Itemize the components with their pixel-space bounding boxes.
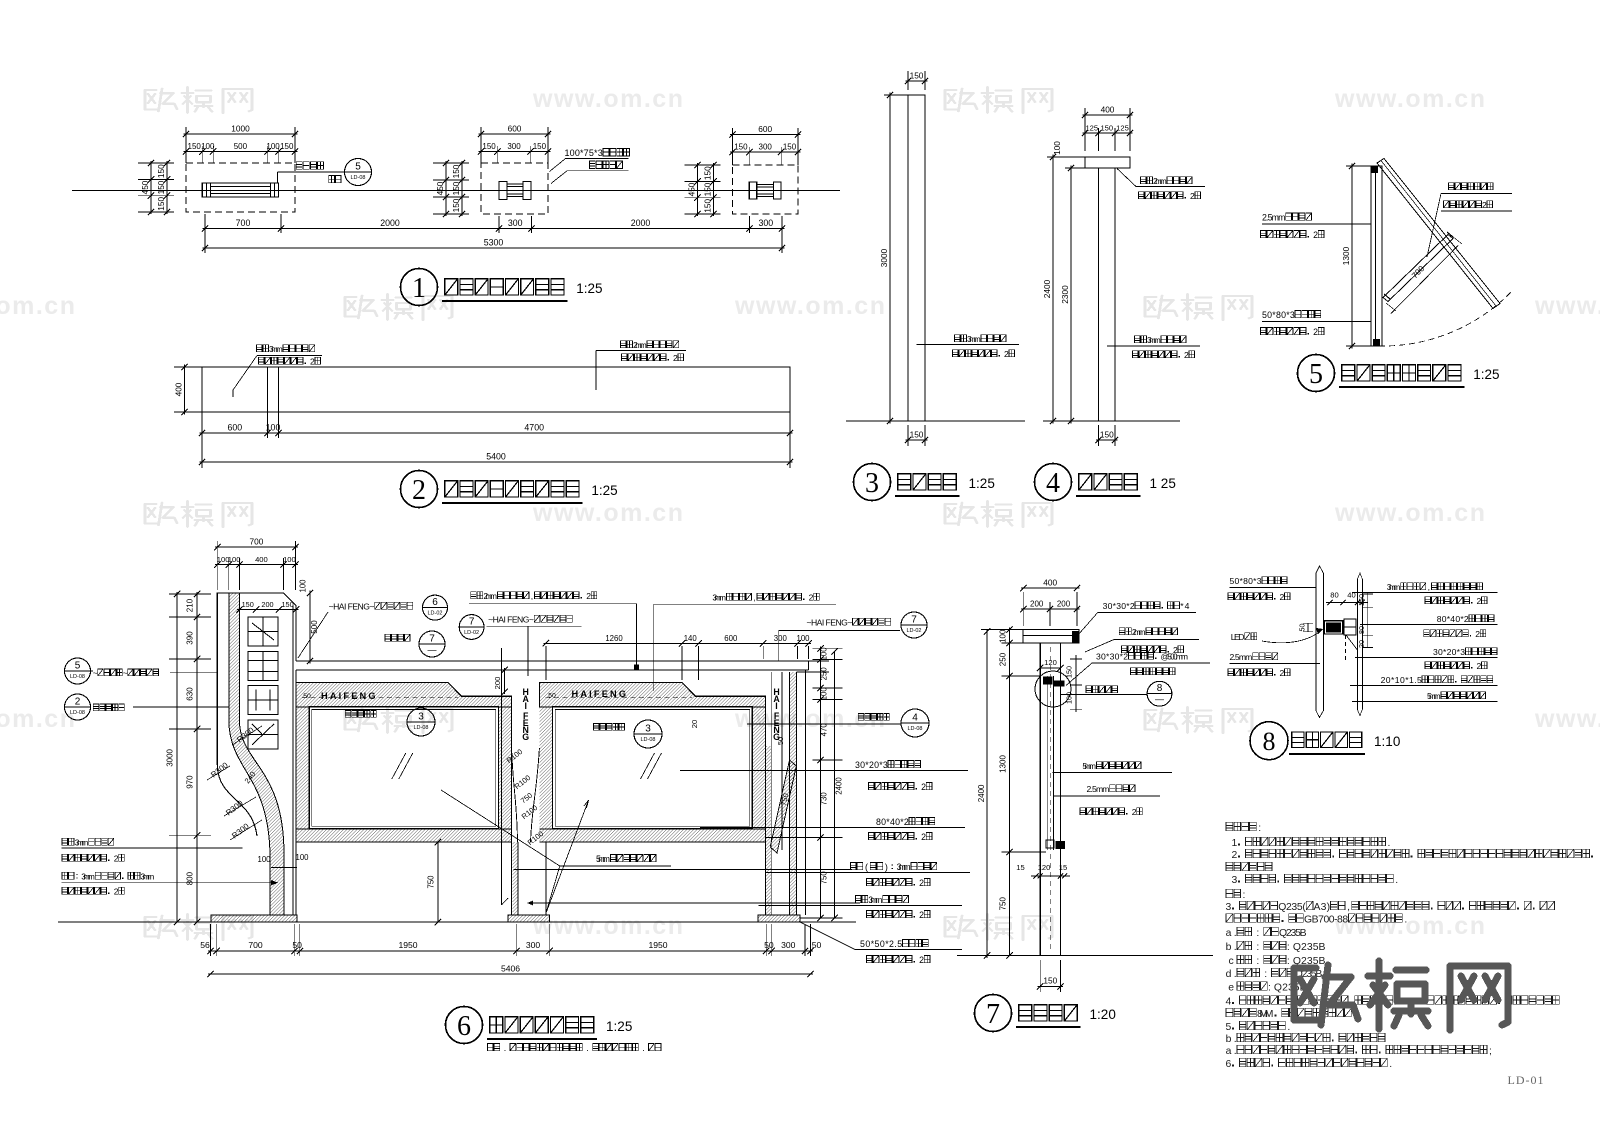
svg-text:150: 150 [451, 181, 461, 195]
window side and bottom borders hatch [539, 707, 552, 829]
svg-text:50*80*3: 50*80*3 [1262, 310, 1295, 320]
svg-text:50: 50 [1298, 624, 1307, 632]
svg-text:LED: LED [1231, 632, 1245, 642]
glass reflection slashes [641, 753, 655, 779]
svg-text:2: 2 [921, 832, 926, 842]
svg-text:LD-08: LD-08 [70, 674, 85, 680]
svg-text:150: 150 [156, 196, 166, 210]
dim 500 right of pillar [309, 591, 311, 664]
svg-text:3mm: 3mm [868, 895, 882, 905]
svg-text:470: 470 [820, 723, 829, 737]
svg-text:2: 2 [809, 593, 814, 603]
hydraulic rod [1383, 235, 1453, 302]
svg-text:100: 100 [257, 855, 271, 864]
leader foundation detail bubble 5 [277, 172, 279, 183]
base plate under pillar [211, 915, 297, 922]
svg-text:3: 3 [1232, 875, 1238, 886]
svg-text:150: 150 [156, 180, 166, 194]
svg-text:150: 150 [242, 600, 254, 609]
svg-text:www.om.cn: www.om.cn [734, 292, 886, 320]
svg-text:3: 3 [418, 712, 424, 723]
svg-text:~HAI FENG~: ~HAI FENG~ [807, 618, 853, 628]
svg-text:.: . [1404, 915, 1407, 926]
svg-text:150: 150 [910, 71, 924, 81]
svg-text:300: 300 [759, 143, 773, 152]
svg-text:120: 120 [1038, 863, 1051, 872]
svg-text:100: 100 [266, 142, 280, 151]
ground line [58, 921, 856, 923]
svg-text:1:25: 1:25 [969, 476, 995, 491]
svg-text:30*20*3: 30*20*3 [855, 760, 888, 770]
bottom dim chain 56/700/50/1950/300/1950/50/300/50 [208, 950, 813, 952]
svg-text:150: 150 [188, 142, 202, 151]
svg-text:b.: b. [1226, 1034, 1237, 1045]
svg-text:100: 100 [796, 634, 810, 643]
svg-text::: : [1256, 928, 1259, 939]
svg-text:210: 210 [186, 598, 195, 612]
svg-text:100*75*3: 100*75*3 [564, 148, 602, 158]
svg-text:600: 600 [508, 124, 522, 134]
svg-text:150: 150 [1357, 594, 1366, 606]
foundation block B3 dashed outline [733, 165, 799, 214]
svg-text:970: 970 [186, 775, 195, 789]
glass reflection slashes [392, 753, 406, 779]
svg-text:—: — [1155, 694, 1164, 704]
svg-text:3000: 3000 [166, 748, 175, 766]
svg-text:2: 2 [919, 910, 924, 920]
svg-text:3mm: 3mm [75, 838, 89, 848]
svg-text:120: 120 [1044, 658, 1057, 667]
left dim column of pillar 210/390/630/970/800 and 3000 [176, 592, 178, 922]
svg-text:250: 250 [999, 652, 1008, 666]
svg-text:e: e [1228, 983, 1234, 994]
svg-text:30*30*2: 30*30*2 [1103, 601, 1135, 611]
leader pier label [550, 159, 566, 172]
ground line section 7 [957, 954, 1213, 956]
svg-text:150: 150 [703, 198, 713, 212]
svg-text:630: 630 [186, 687, 195, 701]
svg-text:6: 6 [432, 597, 438, 608]
svg-text:d.: d. [1226, 969, 1237, 980]
break marks [1316, 566, 1323, 573]
svg-text:150: 150 [282, 600, 294, 609]
dim 400 top [1084, 108, 1086, 151]
svg-text:2.5mm: 2.5mm [1087, 784, 1110, 794]
svg-text:3mm: 3mm [141, 872, 155, 882]
svg-text:1: 1 [412, 273, 426, 304]
svg-text:,: , [753, 593, 755, 603]
svg-text:1:25: 1:25 [1473, 367, 1499, 382]
base plate under right column [758, 915, 800, 922]
svg-text:5406: 5406 [501, 964, 520, 974]
svg-text:80*40*2: 80*40*2 [876, 817, 909, 827]
vertical dims 450 left of B2 [433, 162, 469, 164]
pillar right edge lines [292, 606, 294, 916]
svg-text:56: 56 [200, 940, 210, 950]
svg-text:50: 50 [292, 940, 302, 950]
svg-text:2: 2 [1232, 850, 1238, 861]
svg-text:1300: 1300 [1341, 246, 1351, 265]
pier plan symbol B2 [499, 182, 507, 200]
overall dim 5400 [200, 461, 793, 463]
svg-text:.: . [504, 1043, 506, 1053]
svg-text:~: ~ [93, 668, 98, 678]
svg-text:4: 4 [912, 713, 918, 724]
svg-text:1:10: 1:10 [1374, 734, 1400, 749]
overall dim 5300 [204, 233, 206, 253]
svg-text:5mm: 5mm [1427, 691, 1441, 701]
svg-text:700: 700 [248, 940, 263, 950]
watermark logo [145, 914, 252, 940]
svg-text:c: c [1228, 956, 1233, 967]
pole right elevation [1099, 168, 1116, 421]
svg-text:100: 100 [295, 853, 309, 862]
svg-text:100: 100 [228, 555, 241, 564]
svg-text:400: 400 [174, 382, 184, 396]
title 6 front elevation [446, 1007, 483, 1044]
title 7 section four [975, 995, 1012, 1032]
dim 400 left [174, 366, 202, 368]
svg-text:Q235(: Q235( [1278, 902, 1306, 913]
svg-text:.: . [586, 1043, 588, 1053]
leader hydraulic rod purchase label [1448, 183, 1454, 190]
leader 2mm cap plate [1117, 169, 1136, 187]
title 4 right elevation [1035, 464, 1072, 501]
svg-text:1000: 1000 [231, 124, 250, 134]
rod dim 700 [1391, 246, 1458, 314]
svg-text:LD-01: LD-01 [1508, 1073, 1545, 1087]
svg-text:15: 15 [1016, 863, 1024, 872]
svg-text:800: 800 [186, 871, 195, 885]
svg-text:2: 2 [921, 782, 926, 792]
svg-text:1300: 1300 [999, 755, 1008, 773]
svg-text:150: 150 [1043, 976, 1057, 986]
watermark logo [1145, 707, 1252, 733]
svg-text:1: 1 [1232, 838, 1238, 849]
svg-text:100: 100 [1052, 141, 1062, 155]
svg-text:125: 125 [1116, 124, 1129, 133]
svg-text::: : [1258, 823, 1261, 834]
svg-text::: : [1256, 942, 1259, 953]
svg-text:2.5mm: 2.5mm [1262, 213, 1285, 223]
ground line [846, 420, 1025, 422]
watermark logo [345, 707, 452, 733]
watermark logo [945, 87, 1052, 113]
title 1 plan view [401, 269, 438, 306]
svg-text:;: ; [1489, 1046, 1492, 1057]
svg-text:5: 5 [355, 162, 361, 173]
watermark logo [1145, 294, 1252, 320]
base plate under middle column [508, 915, 550, 922]
watermark logo [945, 914, 1052, 940]
svg-text:2000: 2000 [380, 218, 400, 228]
svg-text:2: 2 [1313, 230, 1318, 240]
svg-text:20*10*1.5: 20*10*1.5 [1381, 675, 1422, 685]
svg-text:3: 3 [645, 724, 651, 735]
svg-text:150: 150 [734, 143, 748, 152]
svg-text:100: 100 [299, 579, 308, 593]
svg-text:GB700-88: GB700-88 [1304, 915, 1348, 926]
svg-text:4700: 4700 [524, 423, 544, 433]
left dim column 100/250/1300/750 + 2400 [1009, 628, 1011, 956]
svg-text:2000: 2000 [631, 218, 651, 228]
right column [765, 696, 767, 915]
svg-text:100: 100 [201, 142, 215, 151]
node detail callout bubble 8 [1086, 686, 1092, 693]
top cap plate [1085, 157, 1130, 168]
dim 1000 above B1 [185, 127, 187, 163]
hidden dashed line of band [545, 697, 692, 699]
svg-text:5300: 5300 [484, 238, 504, 248]
svg-text:I: I [524, 701, 526, 711]
svg-text:HAIFENG: HAIFENG [572, 689, 629, 699]
svg-text:300: 300 [781, 940, 796, 950]
svg-text:300: 300 [774, 634, 788, 643]
svg-text:2mm: 2mm [483, 591, 497, 601]
svg-text:www.om.cn: www.om.cn [1334, 85, 1486, 113]
svg-text:125: 125 [1085, 124, 1098, 133]
svg-text:700: 700 [249, 537, 263, 547]
svg-text:www.om.cn: www.om.cn [0, 292, 76, 320]
leader 3mm pole plate [1107, 345, 1200, 347]
section method 3 bubble inside window 2 [594, 723, 599, 730]
svg-text:.: . [1387, 838, 1390, 849]
svg-text:1:25: 1:25 [606, 1019, 632, 1034]
svg-text:750: 750 [427, 875, 436, 889]
svg-text:1:25: 1:25 [576, 281, 602, 296]
svg-text:20: 20 [690, 720, 699, 728]
pillar S-curve transition [217, 765, 257, 836]
svg-text:30*30*2: 30*30*2 [1096, 652, 1128, 662]
svg-text:2: 2 [1313, 327, 1318, 337]
svg-text:2: 2 [1477, 596, 1482, 606]
svg-text:LD-08: LD-08 [641, 737, 656, 743]
svg-text:a.: a. [1226, 1046, 1237, 1057]
svg-text:2: 2 [412, 475, 426, 506]
svg-text:300: 300 [526, 940, 541, 950]
label 3mm wrap plate right [855, 896, 861, 903]
svg-text:LD-02: LD-02 [907, 628, 922, 634]
bottom dim chain 700/2000/300/2000/300 [204, 214, 206, 233]
svg-text:8: 8 [1263, 727, 1276, 756]
svg-text:5: 5 [1226, 1022, 1232, 1033]
svg-text:2300: 2300 [1060, 285, 1070, 304]
svg-text:3: 3 [1226, 902, 1232, 913]
svg-text:1 25: 1 25 [1150, 476, 1176, 491]
svg-text:450: 450 [140, 180, 150, 194]
svg-text:LD-02: LD-02 [464, 630, 479, 636]
section mark bubble 7 view four [385, 634, 391, 641]
svg-text:700: 700 [236, 218, 251, 228]
svg-text:1950: 1950 [648, 940, 667, 950]
svg-text:2: 2 [1482, 200, 1487, 210]
dim 750 below window1 [437, 842, 439, 922]
svg-text:~: ~ [123, 668, 128, 678]
svg-text:150: 150 [451, 164, 461, 178]
section method 3 bubble inside window 1 [345, 710, 350, 717]
svg-text:3mm: 3mm [967, 334, 981, 344]
right extension lines [796, 671, 829, 673]
svg-text:150: 150 [482, 142, 496, 151]
svg-text:100: 100 [820, 687, 829, 701]
glass inner frame double line [553, 707, 753, 829]
svg-text:Q235B: Q235B [1279, 928, 1307, 939]
svg-text:4: 4 [1226, 997, 1232, 1008]
pillar vertical community name characters [248, 617, 278, 646]
bottom bracket [1046, 840, 1054, 848]
window top band hatch [539, 683, 765, 707]
svg-text:3mm: 3mm [269, 344, 283, 354]
cap plate section [1023, 630, 1079, 644]
svg-text:50: 50 [776, 737, 785, 745]
foundation block B2 dashed outline [481, 163, 548, 214]
middle column S-curves [512, 748, 518, 842]
title 8 node detail [1250, 722, 1288, 760]
svg-text:2: 2 [586, 591, 591, 601]
window outer frame [539, 683, 765, 843]
svg-text:5mm: 5mm [596, 854, 610, 864]
svg-text:1950: 1950 [398, 940, 417, 950]
pillar outline top box [217, 593, 296, 765]
svg-text:2: 2 [919, 955, 924, 965]
callout bubble 7 HAI FENG layout 2 left [459, 615, 484, 640]
svg-text:400: 400 [1043, 578, 1057, 588]
svg-text:750: 750 [999, 896, 1008, 910]
svg-text:: Q235B: : Q235B [1287, 942, 1326, 953]
svg-text::: : [1264, 969, 1267, 980]
middle column below windows [511, 842, 513, 915]
section cut line for detail 7 [501, 648, 503, 905]
svg-text:@500mm: @500mm [1161, 652, 1189, 662]
svg-text:2400: 2400 [835, 777, 844, 795]
svg-text:2: 2 [1280, 592, 1285, 602]
dim 150 top [907, 71, 909, 90]
svg-text:7: 7 [911, 615, 917, 626]
svg-text:5mm: 5mm [1082, 761, 1096, 771]
board B1 plan rectangle [202, 183, 278, 197]
svg-text:80: 80 [1330, 591, 1338, 600]
svg-text:300: 300 [508, 218, 523, 228]
svg-text:6: 6 [1226, 1059, 1232, 1070]
watermark logo [145, 87, 252, 113]
svg-text:50*50*2.5: 50*50*2.5 [860, 939, 902, 949]
svg-text:150: 150 [280, 142, 294, 151]
svg-text:1:20: 1:20 [1090, 1007, 1116, 1022]
svg-text::: : [1256, 956, 1259, 967]
leader 3mm galvanized plate [917, 344, 1020, 346]
svg-text:.: . [1389, 1059, 1392, 1070]
svg-text:2400: 2400 [1042, 279, 1052, 298]
window side and bottom borders hatch [296, 707, 309, 829]
svg-text:2: 2 [1280, 668, 1285, 678]
dim chain 150/100/500/100/150 [201, 146, 203, 163]
main plate vertical lines [1315, 573, 1317, 711]
svg-text:300: 300 [507, 142, 521, 151]
svg-text:2: 2 [673, 353, 678, 363]
label 2mm plate top [471, 592, 477, 599]
svg-text:450: 450 [435, 181, 445, 195]
ground line [1043, 420, 1180, 422]
svg-text:.: . [1395, 875, 1398, 886]
svg-text:3000: 3000 [879, 248, 889, 267]
svg-text:200: 200 [261, 600, 273, 609]
svg-text:3mm: 3mm [81, 872, 95, 882]
svg-text:300: 300 [758, 218, 773, 228]
svg-text:2: 2 [114, 887, 119, 897]
long leader lines lower area [62, 847, 243, 849]
svg-text:6: 6 [457, 1011, 471, 1042]
svg-text:7: 7 [469, 617, 475, 628]
svg-text:400: 400 [255, 555, 268, 564]
svg-text:2mm: 2mm [1153, 176, 1167, 186]
svg-text:600: 600 [227, 423, 242, 433]
svg-text:150: 150 [451, 198, 461, 212]
svg-text:2400: 2400 [977, 784, 986, 802]
svg-text:,: , [1428, 582, 1430, 592]
svg-text:(: ( [865, 862, 868, 872]
svg-text:www.om.cn: www.om.cn [1534, 292, 1600, 320]
left bottom labels [62, 838, 68, 845]
svg-text:8: 8 [1157, 683, 1163, 694]
left callout bubble 2 section method 1 [65, 694, 91, 720]
svg-text:~HAI FENG~: ~HAI FENG~ [488, 615, 534, 625]
watermark logo [145, 501, 252, 527]
right member lines [1356, 579, 1358, 710]
leader label 3mm plate [232, 390, 234, 397]
pier plan symbol B3 [749, 182, 757, 199]
svg-text:80: 80 [1357, 626, 1366, 634]
pillar hatched curved band fill [229, 722, 284, 915]
svg-text::: : [1243, 890, 1246, 901]
svg-text:50: 50 [764, 940, 774, 950]
pillar hatched left wall upper [229, 593, 240, 722]
pillar top dims 700 and 100/100/400/100 [216, 541, 218, 590]
svg-text:—: — [428, 645, 437, 655]
board top plan rectangle [202, 367, 790, 412]
hidden dashed line of band [302, 697, 458, 699]
svg-text:www.om.cn: www.om.cn [1334, 499, 1486, 527]
left callout bubble 5 character layout [65, 658, 91, 684]
svg-text:G: G [522, 732, 529, 742]
svg-text:2: 2 [310, 357, 315, 367]
svg-text:100: 100 [283, 555, 296, 564]
svg-text:50: 50 [812, 940, 822, 950]
svg-text:150: 150 [1100, 430, 1114, 440]
svg-text:200: 200 [493, 677, 502, 690]
title 2 top plan view [401, 471, 438, 508]
top rail beam [296, 660, 809, 662]
right callout section method 3 bubble 4 [858, 713, 863, 720]
svg-text:390: 390 [186, 631, 195, 645]
svg-text:150: 150 [703, 182, 713, 196]
svg-text:200: 200 [1057, 600, 1071, 609]
svg-text:150: 150 [1065, 666, 1074, 678]
hinge block top [1372, 166, 1378, 173]
svg-text:3mm: 3mm [897, 862, 911, 872]
dim 600 above B3 [732, 128, 734, 165]
acrylic panel lines [1046, 676, 1048, 850]
svg-text:400: 400 [1101, 105, 1115, 115]
title 5 hydraulic rod diagram [1298, 355, 1335, 392]
dim 150 bottom [907, 425, 909, 446]
svg-text:www.om.cn: www.om.cn [1334, 912, 1486, 940]
svg-text:): ) [885, 862, 888, 872]
svg-text:4: 4 [1046, 468, 1060, 499]
svg-text:80*40*2: 80*40*2 [1437, 614, 1469, 624]
svg-text:3mm: 3mm [1387, 582, 1401, 592]
plan centerline [72, 190, 840, 192]
svg-text:20: 20 [1357, 640, 1366, 648]
